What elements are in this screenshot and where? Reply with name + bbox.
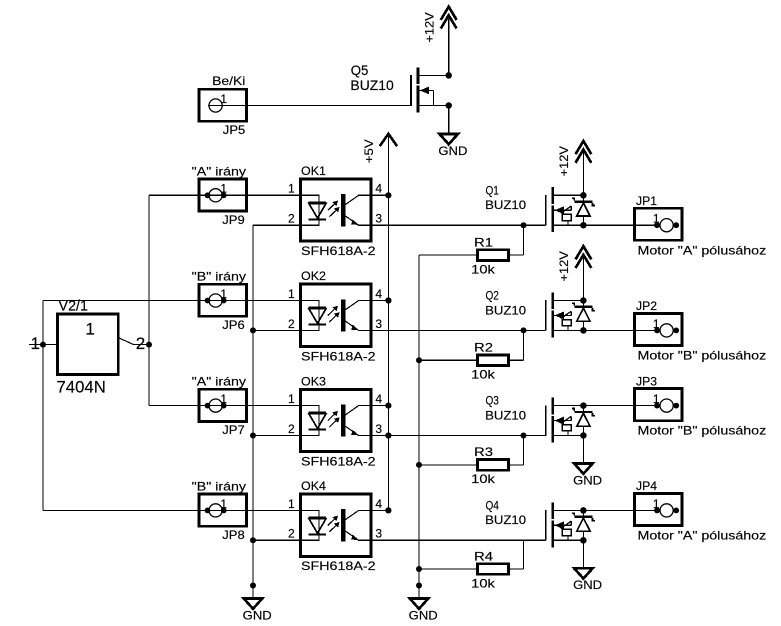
svg-text:JP8: JP8 (222, 528, 245, 542)
svg-text:1: 1 (220, 497, 227, 511)
svg-text:4: 4 (375, 497, 382, 511)
svg-text:SFH618A-2: SFH618A-2 (301, 349, 376, 363)
svg-text:Q5: Q5 (351, 62, 369, 78)
svg-text:OK2: OK2 (301, 269, 326, 283)
svg-text:3: 3 (375, 212, 382, 226)
svg-text:2: 2 (288, 527, 295, 541)
svg-text:GND: GND (409, 608, 438, 622)
svg-text:Motor "A" pólusához: Motor "A" pólusához (638, 529, 767, 543)
svg-text:2: 2 (288, 317, 295, 331)
svg-text:Q3: Q3 (486, 394, 500, 408)
svg-text:JP4: JP4 (636, 479, 657, 493)
svg-text:1: 1 (220, 392, 227, 406)
svg-text:SFH618A-2: SFH618A-2 (301, 244, 376, 258)
svg-text:4: 4 (375, 287, 382, 301)
svg-text:1: 1 (288, 182, 295, 196)
svg-text:R3: R3 (474, 445, 493, 459)
svg-text:1: 1 (220, 287, 227, 301)
svg-text:JP2: JP2 (636, 299, 657, 313)
svg-text:1: 1 (653, 212, 660, 226)
svg-text:GND: GND (438, 144, 467, 158)
svg-text:BUZ10: BUZ10 (485, 198, 526, 212)
svg-text:JP7: JP7 (222, 423, 245, 437)
svg-text:"A" irány: "A" irány (192, 375, 246, 389)
svg-text:2: 2 (288, 422, 295, 436)
svg-text:3: 3 (375, 422, 382, 436)
svg-text:Motor "B" pólusához: Motor "B" pólusához (638, 349, 767, 363)
svg-text:1: 1 (288, 287, 295, 301)
svg-text:"B" irány: "B" irány (192, 480, 246, 494)
svg-text:2: 2 (288, 212, 295, 226)
svg-text:GND: GND (573, 473, 602, 487)
svg-text:1: 1 (85, 320, 94, 339)
svg-text:BUZ10: BUZ10 (485, 303, 526, 317)
svg-text:10k: 10k (471, 368, 496, 382)
svg-text:1: 1 (288, 497, 295, 511)
svg-text:+12V: +12V (422, 12, 436, 42)
svg-text:BUZ10: BUZ10 (485, 408, 526, 422)
svg-text:Q1: Q1 (486, 183, 500, 197)
svg-text:OK1: OK1 (301, 164, 326, 178)
svg-text:1: 1 (288, 392, 295, 406)
svg-text:+12V: +12V (557, 251, 571, 281)
svg-text:Q2: Q2 (486, 289, 500, 303)
svg-text:"A" irány: "A" irány (192, 164, 246, 178)
svg-text:Motor "B" pólusához: Motor "B" pólusához (638, 424, 767, 438)
svg-text:JP6: JP6 (222, 318, 245, 332)
svg-text:BUZ10: BUZ10 (350, 77, 394, 93)
svg-text:1: 1 (653, 317, 660, 331)
svg-text:JP9: JP9 (222, 213, 245, 227)
svg-text:BUZ10: BUZ10 (485, 513, 526, 527)
svg-text:R1: R1 (474, 235, 493, 249)
svg-text:GND: GND (573, 578, 602, 592)
svg-text:1: 1 (220, 92, 227, 106)
svg-text:10k: 10k (471, 472, 496, 486)
svg-text:3: 3 (375, 527, 382, 541)
svg-text:SFH618A-2: SFH618A-2 (301, 559, 376, 573)
svg-text:JP3: JP3 (636, 374, 657, 388)
svg-text:OK4: OK4 (301, 479, 326, 493)
svg-text:4: 4 (375, 182, 382, 196)
svg-text:R2: R2 (474, 341, 493, 355)
svg-text:JP5: JP5 (223, 123, 246, 137)
svg-text:3: 3 (375, 317, 382, 331)
svg-text:OK3: OK3 (301, 374, 326, 388)
svg-text:1: 1 (653, 497, 660, 511)
svg-text:SFH618A-2: SFH618A-2 (301, 454, 376, 468)
svg-text:Be/Ki: Be/Ki (212, 74, 245, 88)
svg-text:1: 1 (31, 334, 40, 353)
svg-text:"B" irány: "B" irány (192, 270, 246, 284)
svg-text:Q4: Q4 (486, 499, 500, 513)
svg-text:10k: 10k (471, 262, 496, 276)
svg-text:R4: R4 (474, 549, 493, 563)
svg-text:2: 2 (136, 334, 145, 353)
svg-text:GND: GND (243, 608, 272, 622)
svg-text:JP1: JP1 (636, 194, 657, 208)
svg-text:10k: 10k (471, 576, 496, 590)
svg-text:Motor "A" pólusához: Motor "A" pólusához (638, 243, 767, 257)
svg-text:1: 1 (653, 392, 660, 406)
svg-text:+12V: +12V (557, 146, 571, 176)
svg-text:1: 1 (220, 182, 227, 196)
svg-text:4: 4 (375, 392, 382, 406)
svg-text:7404N: 7404N (57, 378, 106, 397)
svg-text:+5V: +5V (362, 139, 376, 163)
